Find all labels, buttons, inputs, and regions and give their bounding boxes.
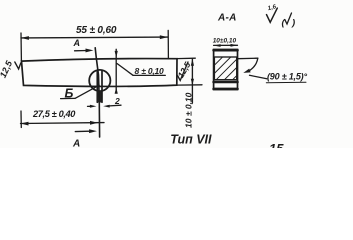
svg-text:A: A [73, 38, 81, 48]
svg-text:8 ± 0,10: 8 ± 0,10 [135, 66, 165, 76]
svg-text:A-A: A-A [217, 12, 237, 23]
svg-text:12,5: 12,5 [176, 60, 193, 80]
svg-text:A: A [72, 139, 80, 149]
svg-text:2: 2 [114, 96, 120, 106]
svg-text:Б: Б [65, 87, 74, 101]
svg-text:55 ± 0,60: 55 ± 0,60 [76, 25, 117, 36]
svg-text:): ) [291, 18, 295, 29]
svg-text:10±0,10: 10±0,10 [213, 37, 237, 44]
svg-text:(90 ± 1,5)°: (90 ± 1,5)° [267, 71, 307, 81]
svg-text:10 ± 0,10: 10 ± 0,10 [184, 92, 194, 128]
svg-text:27,5 ± 0,40: 27,5 ± 0,40 [32, 109, 76, 119]
svg-text:(: ( [282, 18, 287, 29]
svg-text:Тип VII: Тип VII [170, 133, 212, 147]
svg-text:15: 15 [269, 141, 284, 148]
svg-text:12,5: 12,5 [0, 58, 15, 79]
